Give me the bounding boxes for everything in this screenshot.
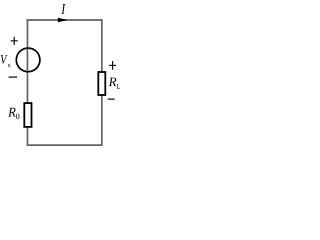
wire bottom horizontal xyxy=(27,144,103,146)
wire right vertical xyxy=(101,19,103,146)
current arrow xyxy=(58,18,68,23)
label R xyxy=(8,108,16,117)
resistor RL box xyxy=(98,72,105,95)
wire left vertical xyxy=(26,19,28,146)
wire top horizontal xyxy=(27,19,103,21)
voltage source V_s circle xyxy=(16,48,40,72)
wire through source xyxy=(26,49,28,72)
label R load xyxy=(109,78,117,87)
plus sign load xyxy=(109,61,116,70)
resistor R0 box xyxy=(24,103,31,127)
minus sign load xyxy=(108,98,115,100)
subscript 0 xyxy=(16,114,19,120)
subscript s xyxy=(8,64,10,67)
subscript L xyxy=(117,84,120,89)
minus sign source xyxy=(9,76,18,78)
label V xyxy=(1,55,8,64)
label I xyxy=(61,4,65,14)
plus sign source xyxy=(11,37,18,45)
